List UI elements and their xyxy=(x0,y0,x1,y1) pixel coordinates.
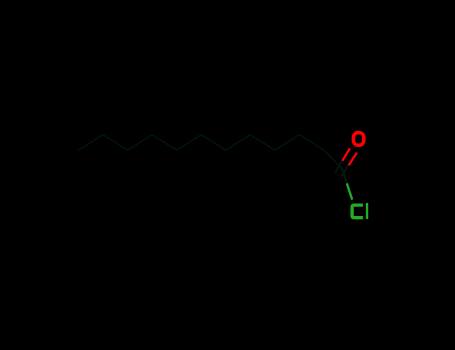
bond C12-Cl carbon half xyxy=(342,169,347,183)
bond C12=O carbon half, line 1 xyxy=(335,161,342,173)
atom label O (red) xyxy=(353,133,363,146)
atom label Cl: letter C (green) xyxy=(352,205,363,218)
bond C12=O carbon half, line 2 xyxy=(342,164,349,176)
atom label Cl: letter l (green) xyxy=(366,203,368,219)
bond C12=O oxygen half, line 1 (red) xyxy=(342,148,350,161)
wire: alkyl chain C1-C11 (carbon colored, near-black) xyxy=(79,135,343,169)
bond C12=O oxygen half, line 2 (red) xyxy=(349,153,357,166)
bond C12-Cl chlorine half (green) xyxy=(347,183,352,199)
